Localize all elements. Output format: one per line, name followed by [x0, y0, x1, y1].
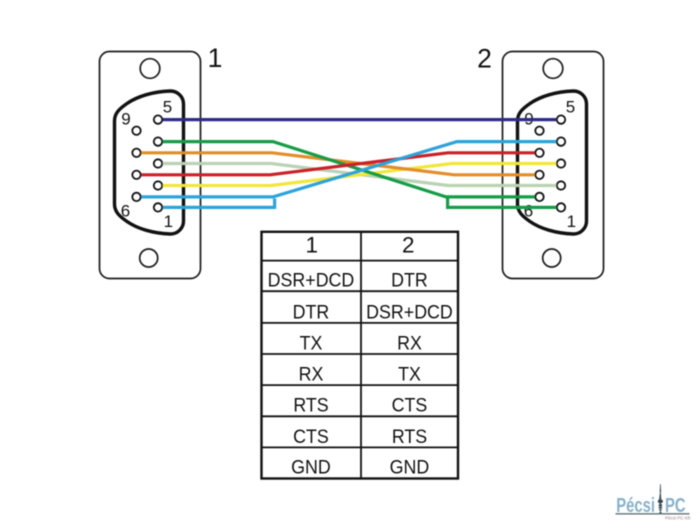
- table body text: [268, 269, 453, 478]
- svg-text:2: 2: [402, 232, 415, 257]
- wire TX J1 pin3 to RX J2 pin2 (pale green): [163, 164, 557, 186]
- svg-text:Pécsi: Pécsi: [616, 494, 655, 517]
- svg-text:RTS: RTS: [293, 394, 328, 416]
- signal table: [262, 232, 459, 479]
- logo PecsiPC: [616, 484, 692, 521]
- wire DTR J1 pin4 to DSR+DCD J2 pins6+1 (green): [163, 142, 535, 197]
- svg-text:DSR+DCD: DSR+DCD: [268, 269, 355, 291]
- wire DSR+DCD J1 pins6+1 to DTR J2 pin4 (cyan): [141, 142, 556, 197]
- svg-text:GND: GND: [291, 456, 331, 478]
- wire RTS J1 pin7 to CTS J2 pin8 (red): [141, 153, 535, 175]
- svg-text:CTS: CTS: [392, 394, 428, 416]
- svg-text:1: 1: [208, 43, 223, 73]
- wire GND: pin5 J1 to pin5 J2 (dark blue): [163, 118, 557, 121]
- connector 1 (left DB9): [100, 52, 201, 279]
- logo tower icon (Pecs TV tower): [658, 484, 663, 513]
- wire RX J1 pin2 to TX J2 pin3 (yellow): [163, 164, 557, 186]
- svg-text:Pécsi PC Kft: Pécsi PC Kft: [665, 516, 691, 521]
- wire cyan jumper from pin1 J1: [163, 199, 275, 208]
- svg-text:GND: GND: [390, 456, 430, 478]
- svg-text:RTS: RTS: [392, 425, 427, 447]
- svg-text:TX: TX: [300, 332, 323, 354]
- wire green jumper to pin1 J2: [448, 199, 557, 208]
- svg-text:DTR: DTR: [391, 269, 428, 291]
- connector 2 (right DB9): [503, 52, 604, 279]
- svg-text:1: 1: [305, 232, 318, 257]
- table header text: [305, 232, 414, 257]
- svg-text:RX: RX: [299, 363, 324, 385]
- wire CTS J1 pin8 to RTS J2 pin7 (orange): [141, 153, 535, 175]
- svg-text:DSR+DCD: DSR+DCD: [366, 301, 453, 323]
- svg-text:2: 2: [477, 44, 492, 74]
- svg-text:RX: RX: [397, 332, 422, 354]
- svg-text:TX: TX: [398, 363, 421, 385]
- svg-text:PC: PC: [665, 494, 686, 517]
- logo underline: [616, 513, 690, 514]
- svg-text:CTS: CTS: [293, 425, 329, 447]
- svg-text:DTR: DTR: [293, 301, 330, 323]
